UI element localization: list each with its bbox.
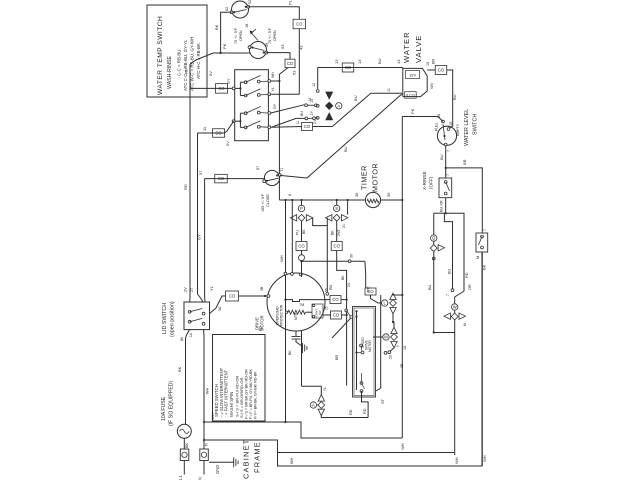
svg-text:WASH/ SPIN: WASH/ SPIN xyxy=(229,392,234,417)
svg-text:6 CO: 6 CO xyxy=(406,94,415,98)
svg-text:BK: BK xyxy=(341,275,345,280)
svg-text:WH: WH xyxy=(290,457,294,464)
svg-text:12V: 12V xyxy=(409,73,416,78)
svg-text:OPEN: OPEN xyxy=(239,30,243,41)
svg-text:WH: WH xyxy=(271,72,275,78)
svg-text:56: 56 xyxy=(325,288,329,292)
svg-text:WASH-RINSE: WASH-RINSE xyxy=(167,56,173,89)
svg-text:WATER: WATER xyxy=(402,31,411,63)
svg-text:7: 7 xyxy=(483,229,487,231)
svg-text:21: 21 xyxy=(313,120,317,124)
svg-text:52: 52 xyxy=(248,0,252,4)
svg-text:CO: CO xyxy=(304,124,311,129)
svg-text:20: 20 xyxy=(389,355,393,359)
svg-text:3A: 3A xyxy=(218,306,222,311)
svg-text:RD: RD xyxy=(349,409,353,415)
svg-text:GY: GY xyxy=(273,103,277,109)
svg-text:53: 53 xyxy=(280,44,285,49)
svg-text:36: 36 xyxy=(350,254,354,258)
svg-text:P: P xyxy=(300,206,303,211)
svg-text:BU: BU xyxy=(353,95,358,101)
svg-text:BK: BK xyxy=(288,350,292,355)
svg-text:CO: CO xyxy=(218,86,225,91)
svg-text:53: 53 xyxy=(292,70,297,75)
svg-text:BR: BR xyxy=(462,159,467,165)
svg-text:TM: TM xyxy=(299,303,304,307)
svg-text:PU: PU xyxy=(296,230,300,235)
svg-text:TIMER: TIMER xyxy=(360,165,369,190)
svg-text:75 +/- 5'F: 75 +/- 5'F xyxy=(234,27,238,44)
svg-text:WV: WV xyxy=(429,82,434,89)
svg-text:BR: BR xyxy=(335,354,339,360)
svg-text:3B: 3B xyxy=(260,286,264,291)
svg-text:S:/ S = BR-OR/RD-OR: S:/ S = BR-OR/RD-OR xyxy=(239,378,244,418)
svg-text:VALVE: VALVE xyxy=(414,35,423,63)
svg-text:PK: PK xyxy=(222,43,227,49)
svg-text:CO: CO xyxy=(367,289,374,294)
svg-text:10A FUSE: 10A FUSE xyxy=(161,396,167,421)
svg-text:BU: BU xyxy=(343,146,348,152)
svg-text:11: 11 xyxy=(296,121,300,125)
svg-text:WATER LEVEL: WATER LEVEL xyxy=(464,109,470,146)
svg-text:M: M xyxy=(384,335,388,340)
svg-text:S: S xyxy=(335,206,338,211)
svg-text:(IF SO EQUIPPED): (IF SO EQUIPPED) xyxy=(169,380,175,426)
svg-text:LID SWITCH: LID SWITCH xyxy=(162,303,168,334)
svg-text:12: 12 xyxy=(312,83,316,87)
svg-text:RD: RD xyxy=(329,284,333,290)
svg-text:BK: BK xyxy=(177,366,182,372)
svg-text:GY: GY xyxy=(197,234,202,240)
svg-text:CO: CO xyxy=(334,244,341,249)
svg-text:BU: BU xyxy=(448,268,452,274)
svg-text:YL: YL xyxy=(271,87,275,91)
svg-text:EMPTY: EMPTY xyxy=(456,123,460,136)
svg-text:BU: BU xyxy=(300,111,304,116)
svg-text:57: 57 xyxy=(256,166,260,170)
svg-text:BK: BK xyxy=(302,229,306,234)
svg-text:27: 27 xyxy=(190,288,194,292)
svg-text:CABINET: CABINET xyxy=(242,439,251,479)
svg-text:13: 13 xyxy=(334,59,339,64)
svg-text:BK: BK xyxy=(331,230,335,235)
svg-text:A: A xyxy=(337,103,340,108)
svg-text:7L: 7L xyxy=(323,387,327,391)
svg-text:13: 13 xyxy=(357,59,362,64)
svg-text:15: 15 xyxy=(449,122,453,126)
svg-text:2V3: 2V3 xyxy=(337,230,341,236)
svg-text:75 +/- 5'F: 75 +/- 5'F xyxy=(268,27,272,44)
svg-text:MTR: MTR xyxy=(294,312,298,320)
svg-text:FULL: FULL xyxy=(435,122,439,131)
svg-text:WH: WH xyxy=(206,387,210,394)
svg-text:62: 62 xyxy=(225,7,229,11)
svg-text:W: W xyxy=(453,305,457,310)
svg-text:CO: CO xyxy=(345,65,352,70)
svg-text:PL: PL xyxy=(288,0,293,5)
svg-text:PROTECTOR: PROTECTOR xyxy=(280,304,284,326)
svg-text:7: 7 xyxy=(447,150,451,152)
svg-text:3B: 3B xyxy=(400,363,404,368)
svg-text:RD: RD xyxy=(183,184,188,190)
svg-text:CO: CO xyxy=(229,294,236,299)
svg-text:CO: CO xyxy=(218,176,225,181)
svg-text:SWITCH: SWITCH xyxy=(473,114,479,135)
svg-text:165 +/- 5'F: 165 +/- 5'F xyxy=(261,193,265,212)
svg-text:14: 14 xyxy=(310,99,314,103)
svg-text:BK: BK xyxy=(214,24,219,30)
svg-text:BU: BU xyxy=(439,154,444,160)
svg-text:WATER TEMP SWITCH: WATER TEMP SWITCH xyxy=(157,16,164,95)
svg-text:C-C = RB-BU: C-C = RB-BU xyxy=(177,50,182,76)
svg-text:BU: BU xyxy=(377,58,382,64)
svg-text:6: 6 xyxy=(288,194,292,196)
svg-text:BU: BU xyxy=(428,284,432,290)
svg-text:CO: CO xyxy=(287,61,294,66)
svg-text:ST: ST xyxy=(380,398,385,404)
svg-text:CO: CO xyxy=(298,244,305,249)
svg-text:43: 43 xyxy=(299,45,304,50)
svg-text:OPEN: OPEN xyxy=(273,30,277,41)
svg-text:11: 11 xyxy=(387,88,391,92)
svg-text:CLOSE: CLOSE xyxy=(266,194,270,207)
svg-text:ATC H-C = RB-BK: ATC H-C = RB-BK xyxy=(196,43,201,79)
svg-text:GY: GY xyxy=(227,78,231,84)
svg-text:M: M xyxy=(476,256,480,259)
svg-text:PK: PK xyxy=(410,108,415,114)
svg-text:RD: RD xyxy=(184,68,189,74)
svg-text:M: M xyxy=(463,323,467,326)
svg-text:BU XR: BU XR xyxy=(440,200,444,212)
svg-text:T1: T1 xyxy=(280,168,284,172)
svg-text:RD: RD xyxy=(465,272,469,278)
svg-text:21: 21 xyxy=(342,224,346,228)
svg-text:5V: 5V xyxy=(208,71,213,76)
svg-text:25: 25 xyxy=(325,306,329,310)
svg-text:CO: CO xyxy=(215,131,222,136)
svg-text:7: 7 xyxy=(446,294,450,296)
svg-text:OR: OR xyxy=(468,284,472,290)
svg-text:36: 36 xyxy=(386,192,391,197)
svg-text:16: 16 xyxy=(403,346,407,350)
svg-text:18: 18 xyxy=(245,24,249,28)
svg-text:YL: YL xyxy=(209,285,214,291)
svg-text:24: 24 xyxy=(347,283,351,287)
svg-text:N: N xyxy=(205,443,209,446)
svg-text:ATC C-C = RB-BU, GY-YL: ATC C-C = RB-BU, GY-YL xyxy=(183,39,188,91)
svg-text:BR: BR xyxy=(432,58,436,64)
svg-text:L1: L1 xyxy=(178,475,183,480)
svg-text:RD: RD xyxy=(259,325,263,331)
svg-text:57: 57 xyxy=(198,170,203,175)
svg-text:9: 9 xyxy=(396,345,400,347)
svg-text:(open position): (open position) xyxy=(170,301,176,337)
svg-text:13: 13 xyxy=(396,59,401,64)
svg-text:: = FAST INTERMITTENT: : = FAST INTERMITTENT xyxy=(224,369,229,417)
svg-text:FRAME: FRAME xyxy=(253,441,262,473)
svg-text:MOTOR: MOTOR xyxy=(371,163,380,192)
svg-text:15: 15 xyxy=(426,62,430,66)
svg-text:MOTOR: MOTOR xyxy=(368,339,372,352)
svg-text:GND: GND xyxy=(215,465,220,474)
svg-text:WH: WH xyxy=(279,255,284,262)
svg-text:7: 7 xyxy=(446,174,450,176)
svg-text:RD: RD xyxy=(363,408,367,414)
svg-text:WH: WH xyxy=(454,457,459,464)
svg-text:BU: BU xyxy=(452,94,457,100)
svg-text:F-/ S = BR-BK,GY-BK/ RD-OR: F-/ S = BR-BK,GY-BK/ RD-OR xyxy=(245,369,249,419)
svg-text:CO: CO xyxy=(296,22,303,27)
svg-text:F:/ F = BR-PU, GY-BK/ RD-BK: F:/ F = BR-PU, GY-BK/ RD-BK xyxy=(249,368,253,419)
svg-text:CO: CO xyxy=(438,68,445,73)
svg-text:2V: 2V xyxy=(184,287,188,292)
svg-text:SW: SW xyxy=(318,310,322,315)
svg-text:F/ F= BR-BK, GY-BK/ RD-BK: F/ F= BR-BK, GY-BK/ RD-BK xyxy=(254,371,258,419)
svg-text:A: A xyxy=(312,403,315,408)
svg-text:CO: CO xyxy=(332,297,339,302)
svg-text:X-RINSE: X-RINSE xyxy=(422,171,427,190)
svg-text:5V: 5V xyxy=(225,141,230,146)
svg-text:36: 36 xyxy=(355,193,359,197)
svg-text:2Y: 2Y xyxy=(310,110,314,115)
svg-text:CO: CO xyxy=(333,313,340,318)
svg-text:BK: BK xyxy=(185,442,189,448)
svg-text:(OFF): (OFF) xyxy=(429,176,434,189)
svg-text:WH: WH xyxy=(400,443,405,450)
svg-text:59: 59 xyxy=(265,43,269,47)
